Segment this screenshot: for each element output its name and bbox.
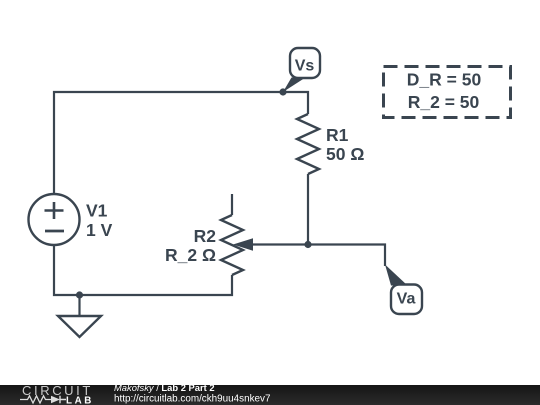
ground symbol triangle <box>58 316 101 337</box>
svg-text:Makofsky / Lab 2 Part 2: Makofsky / Lab 2 Part 2 <box>114 382 215 393</box>
wire: R1 bottom to junction <box>307 174 309 245</box>
V1 plus sign <box>45 202 64 219</box>
resistor R1 zigzag <box>297 114 319 174</box>
junction dot at Vs <box>279 88 286 95</box>
svg-text:R1: R1 <box>326 125 349 145</box>
node flag Va pointer wedge <box>385 265 408 286</box>
potentiometer R2 top stub <box>231 194 233 215</box>
svg-text:Va: Va <box>397 291 416 308</box>
node flag Va box <box>391 285 422 315</box>
svg-text:D_R = 50: D_R = 50 <box>407 70 482 90</box>
CircuitLab logo resistor-diode drawing <box>20 396 51 403</box>
svg-text:V1: V1 <box>86 201 108 221</box>
node flag Vs pointer wedge <box>283 78 306 93</box>
potentiometer R2 zigzag <box>221 215 243 275</box>
footer bar <box>0 385 540 405</box>
V1 minus sign <box>45 230 64 233</box>
svg-text:R_2 = 50: R_2 = 50 <box>408 92 480 112</box>
svg-text:http://circuitlab.com/ckh9uu4s: http://circuitlab.com/ckh9uu4snkev7 <box>114 394 270 405</box>
svg-text:LAB: LAB <box>66 396 94 405</box>
svg-text:1 V: 1 V <box>86 220 113 240</box>
wire: junction to Va corner <box>308 245 385 267</box>
svg-text:R2: R2 <box>194 226 217 246</box>
junction dot at ground <box>76 291 83 298</box>
ground stub <box>78 295 80 316</box>
wire bottom: V1 bottom to R2 bottom stub <box>54 245 232 295</box>
svg-text:R_2 Ω: R_2 Ω <box>165 245 216 265</box>
svg-text:50 Ω: 50 Ω <box>326 144 364 164</box>
potentiometer R2 wiper arrow <box>233 238 253 250</box>
voltage source V1 circle <box>29 194 80 245</box>
junction dot at wiper node <box>304 241 311 248</box>
wire top: from V1 top-left corner to R1 top <box>54 92 308 194</box>
wire: wiper line from junction to arrow <box>252 243 308 245</box>
parameter box dashed rect <box>384 67 511 118</box>
svg-text:Vs: Vs <box>295 58 315 75</box>
node flag Vs box <box>290 48 320 78</box>
